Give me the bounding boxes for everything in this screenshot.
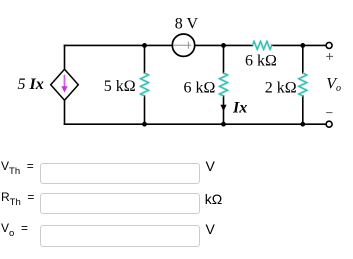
svg-text:5 Ix: 5 Ix <box>18 76 44 93</box>
svg-text:Ix: Ix <box>232 100 247 117</box>
svg-text:5 kΩ: 5 kΩ <box>104 78 136 95</box>
svg-text:8 V: 8 V <box>175 15 199 32</box>
svg-text:2 kΩ: 2 kΩ <box>265 80 297 97</box>
svg-text:Vo: Vo <box>326 75 341 94</box>
svg-text:6 kΩ: 6 kΩ <box>245 53 277 70</box>
svg-text:6 kΩ: 6 kΩ <box>184 80 216 97</box>
